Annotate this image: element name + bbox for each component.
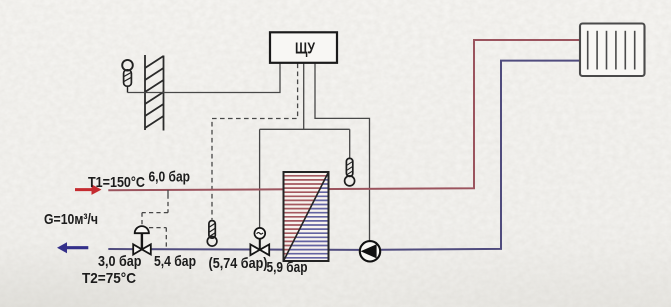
supply thermometer bbox=[345, 158, 355, 186]
sensor signal wire bbox=[128, 63, 281, 93]
svg-text:5,4 бар: 5,4 бар bbox=[154, 253, 196, 270]
junction wire horizontal bbox=[260, 128, 350, 130]
control cabinet ЩУ bbox=[270, 32, 337, 63]
svg-text:T1=150°C: T1=150°C bbox=[88, 174, 145, 191]
solenoid valve V2 bbox=[250, 228, 269, 255]
svg-text:T2=75°C: T2=75°C bbox=[82, 270, 136, 287]
outdoor temperature sensor bbox=[122, 60, 133, 93]
svg-text:5,9 бар: 5,9 бар bbox=[267, 259, 308, 276]
svg-text:3,0 бар: 3,0 бар bbox=[98, 253, 142, 270]
impulse line (dashed) from cabinet to return thermometer bbox=[212, 64, 298, 220]
svg-text:ЩУ: ЩУ bbox=[295, 41, 315, 58]
control valve V1 (bowtie) bbox=[133, 226, 151, 254]
wire from cabinet down to junction bbox=[303, 64, 305, 130]
pump bbox=[360, 241, 380, 261]
svg-text:6,0 бар: 6,0 бар bbox=[149, 169, 191, 186]
wire to supply thermometer bbox=[349, 129, 351, 158]
return pipe T2 (blue) bbox=[57, 61, 580, 254]
svg-text:(5,74 бар): (5,74 бар) bbox=[209, 255, 268, 272]
wire from cabinet to pump bbox=[315, 64, 370, 242]
impulse lines (dashed) at control valve bbox=[142, 190, 168, 248]
heat exchanger bbox=[283, 172, 329, 261]
wire to solenoid valve actuator bbox=[259, 129, 261, 228]
wall (hatched) bbox=[145, 55, 164, 131]
radiator bbox=[580, 24, 645, 77]
return thermometer bbox=[207, 221, 217, 247]
supply pipe T1 (red) bbox=[75, 40, 580, 195]
svg-text:G=10м³/ч: G=10м³/ч bbox=[44, 211, 98, 228]
